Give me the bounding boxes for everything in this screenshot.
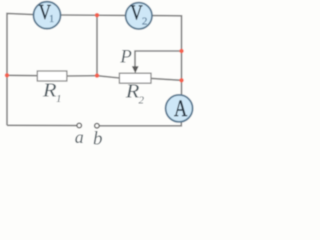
svg-text:V: V xyxy=(130,2,143,25)
svg-text:b: b xyxy=(93,129,103,149)
svg-text:R: R xyxy=(42,79,57,102)
svg-text:R: R xyxy=(125,80,140,103)
svg-text:A: A xyxy=(174,95,187,122)
svg-text:a: a xyxy=(75,127,84,147)
svg-text:2: 2 xyxy=(139,95,145,107)
svg-text:1: 1 xyxy=(56,93,62,105)
svg-text:2: 2 xyxy=(142,15,148,27)
svg-text:1: 1 xyxy=(49,14,54,25)
svg-text:P: P xyxy=(119,46,132,67)
